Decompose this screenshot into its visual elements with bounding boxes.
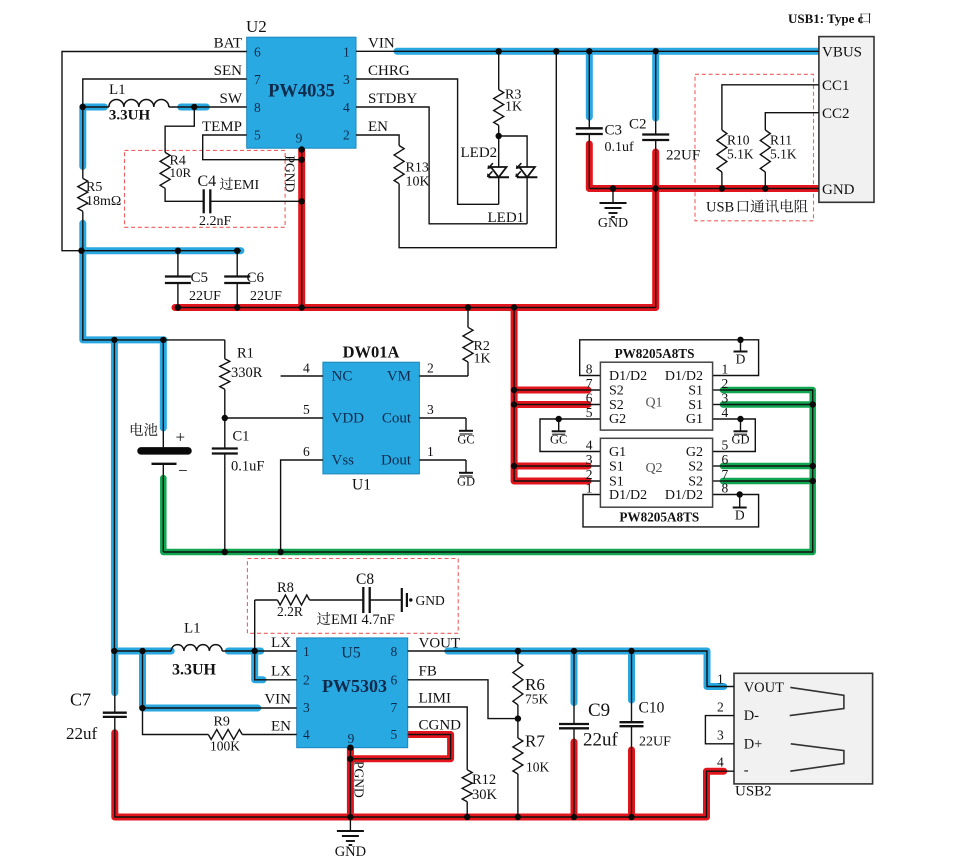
svg-text:2.2R: 2.2R — [277, 604, 303, 619]
svg-text:4: 4 — [586, 438, 593, 453]
svg-text:2.2nF: 2.2nF — [199, 214, 232, 229]
svg-text:CHRG: CHRG — [368, 63, 410, 79]
svg-text:Q1: Q1 — [645, 396, 662, 411]
svg-text:S1: S1 — [688, 398, 703, 413]
svg-text:2: 2 — [303, 673, 310, 688]
svg-text:3: 3 — [722, 391, 729, 406]
svg-text:5: 5 — [586, 405, 593, 420]
svg-text:G1: G1 — [609, 445, 626, 460]
svg-text:D+: D+ — [744, 737, 763, 753]
svg-text:R13: R13 — [406, 161, 429, 176]
svg-text:SEN: SEN — [214, 63, 243, 79]
svg-text:L1: L1 — [109, 82, 126, 98]
svg-text:U2: U2 — [246, 17, 267, 36]
svg-text:1K: 1K — [505, 100, 522, 115]
svg-text:EN: EN — [271, 719, 291, 735]
svg-text:R5: R5 — [86, 180, 102, 195]
svg-text:0.1uf: 0.1uf — [605, 140, 635, 155]
svg-text:LIMI: LIMI — [419, 691, 452, 707]
svg-text:D: D — [735, 508, 745, 523]
svg-text:FB: FB — [419, 664, 437, 680]
svg-text:C2: C2 — [629, 117, 647, 133]
svg-text:3.3UH: 3.3UH — [109, 108, 151, 124]
svg-text:+: + — [176, 428, 186, 447]
svg-text:0.1uF: 0.1uF — [231, 459, 264, 475]
svg-text:C3: C3 — [605, 123, 623, 139]
svg-text:S2: S2 — [609, 384, 624, 399]
svg-text:D1/D2: D1/D2 — [665, 369, 703, 384]
svg-text:22UF: 22UF — [250, 289, 282, 304]
svg-text:10K: 10K — [526, 760, 550, 775]
svg-text:U5: U5 — [341, 645, 361, 662]
svg-text:G2: G2 — [686, 445, 703, 460]
svg-text:1: 1 — [722, 362, 729, 377]
svg-text:22UF: 22UF — [666, 148, 700, 164]
svg-text:D1/D2: D1/D2 — [665, 488, 703, 503]
svg-text:R12: R12 — [472, 772, 496, 788]
svg-text:1K: 1K — [474, 352, 491, 367]
svg-text:NC: NC — [332, 369, 353, 385]
svg-text:1: 1 — [343, 45, 350, 60]
svg-text:GND: GND — [335, 844, 366, 860]
svg-text:G1: G1 — [686, 412, 703, 427]
svg-text:G2: G2 — [609, 412, 626, 427]
svg-text:7: 7 — [391, 700, 398, 715]
svg-text:C10: C10 — [639, 700, 665, 717]
svg-text:D-: D- — [744, 708, 759, 724]
svg-text:100K: 100K — [210, 739, 240, 754]
svg-text:R8: R8 — [277, 580, 294, 596]
svg-text:6: 6 — [586, 391, 593, 406]
svg-text:DW01A: DW01A — [343, 343, 400, 362]
svg-text:U1: U1 — [352, 477, 371, 494]
svg-text:C6: C6 — [247, 270, 265, 286]
svg-text:LX: LX — [271, 664, 291, 680]
svg-text:Dout: Dout — [381, 453, 412, 469]
svg-text:2: 2 — [427, 361, 434, 376]
svg-text:22uf: 22uf — [583, 730, 619, 751]
svg-text:R1: R1 — [237, 346, 254, 362]
svg-text:D: D — [736, 352, 746, 367]
svg-text:4: 4 — [303, 361, 310, 376]
svg-text:VIN: VIN — [264, 692, 291, 708]
svg-text:18mΩ: 18mΩ — [86, 194, 121, 209]
svg-text:8: 8 — [586, 362, 593, 377]
svg-text:LED2: LED2 — [461, 145, 498, 161]
svg-text:2: 2 — [717, 700, 724, 715]
svg-text:GND: GND — [598, 216, 628, 231]
svg-text:3: 3 — [303, 700, 310, 715]
svg-text:C7: C7 — [70, 690, 91, 710]
svg-text:-: - — [744, 763, 749, 779]
svg-text:22uf: 22uf — [66, 724, 98, 743]
svg-text:BAT: BAT — [214, 36, 242, 52]
svg-text:30K: 30K — [472, 787, 498, 803]
svg-text:1: 1 — [427, 444, 434, 459]
svg-text:PGND: PGND — [283, 156, 298, 193]
svg-text:GND: GND — [822, 182, 855, 198]
svg-text:4.7nF: 4.7nF — [362, 612, 395, 628]
svg-text:S2: S2 — [609, 398, 624, 413]
svg-text:3: 3 — [586, 452, 593, 467]
svg-text:Cout: Cout — [382, 411, 412, 427]
svg-text:PW8205A8TS: PW8205A8TS — [615, 346, 695, 361]
svg-text:PGND: PGND — [352, 761, 367, 798]
svg-text:C4: C4 — [198, 173, 217, 190]
svg-text:PW8205A8TS: PW8205A8TS — [619, 510, 699, 525]
svg-text:USB1: Type c: USB1: Type c — [788, 11, 864, 26]
svg-text:R9: R9 — [214, 715, 230, 730]
svg-text:5.1K: 5.1K — [727, 147, 754, 162]
svg-text:8: 8 — [254, 100, 261, 115]
svg-text:C8: C8 — [356, 571, 374, 588]
svg-text:2: 2 — [343, 128, 350, 143]
svg-text:10R: 10R — [170, 165, 192, 180]
svg-text:GND: GND — [416, 593, 445, 608]
svg-text:3: 3 — [717, 728, 724, 743]
svg-text:TEMP: TEMP — [202, 119, 242, 135]
svg-text:4: 4 — [303, 727, 310, 742]
svg-text:5.1K: 5.1K — [770, 147, 797, 162]
svg-text:6: 6 — [391, 673, 398, 688]
svg-text:10K: 10K — [406, 175, 430, 190]
svg-text:Vss: Vss — [332, 453, 355, 469]
svg-text:VM: VM — [387, 369, 411, 385]
svg-text:4: 4 — [343, 100, 350, 115]
svg-text:PW5303: PW5303 — [322, 676, 387, 696]
svg-text:S2: S2 — [688, 460, 703, 475]
svg-text:5: 5 — [303, 402, 310, 417]
svg-text:330R: 330R — [231, 365, 263, 381]
svg-text:9: 9 — [348, 731, 355, 746]
svg-text:R7: R7 — [525, 732, 545, 751]
svg-text:C5: C5 — [191, 270, 209, 286]
svg-text:2: 2 — [722, 376, 729, 391]
svg-text:7: 7 — [254, 72, 261, 87]
svg-text:Q2: Q2 — [645, 461, 662, 476]
svg-text:75K: 75K — [525, 692, 549, 707]
svg-text:6: 6 — [303, 444, 310, 459]
svg-text:R11: R11 — [770, 133, 792, 148]
svg-text:LX: LX — [271, 635, 291, 651]
svg-text:6: 6 — [254, 45, 261, 60]
svg-text:STDBY: STDBY — [368, 91, 417, 107]
svg-text:3: 3 — [427, 402, 434, 417]
svg-text:CC2: CC2 — [822, 106, 850, 122]
svg-text:1: 1 — [303, 644, 310, 659]
svg-text:PW4035: PW4035 — [268, 82, 335, 102]
svg-text:S1: S1 — [609, 460, 624, 475]
svg-text:VBUS: VBUS — [822, 45, 862, 61]
svg-text:CGND: CGND — [419, 718, 462, 734]
svg-text:CC1: CC1 — [822, 78, 850, 94]
svg-text:EN: EN — [368, 119, 388, 135]
svg-text:8: 8 — [722, 481, 729, 496]
svg-text:5: 5 — [254, 128, 261, 143]
svg-text:VDD: VDD — [332, 411, 365, 427]
svg-text:USB: USB — [706, 200, 734, 216]
svg-text:4: 4 — [722, 405, 729, 420]
svg-text:C9: C9 — [588, 700, 610, 721]
svg-text:5: 5 — [722, 438, 729, 453]
svg-text:22UF: 22UF — [189, 289, 221, 304]
svg-text:LED1: LED1 — [488, 210, 525, 226]
svg-text:USB2: USB2 — [735, 784, 772, 800]
svg-text:22UF: 22UF — [639, 735, 671, 750]
svg-text:3: 3 — [343, 72, 350, 87]
svg-text:D1/D2: D1/D2 — [609, 488, 647, 503]
svg-text:1: 1 — [717, 672, 724, 687]
svg-text:S1: S1 — [688, 384, 703, 399]
svg-text:1: 1 — [586, 481, 593, 496]
svg-text:−: − — [178, 461, 188, 480]
svg-text:5: 5 — [391, 727, 398, 742]
svg-text:EMI: EMI — [331, 612, 358, 628]
svg-text:D1/D2: D1/D2 — [609, 369, 647, 384]
svg-text:R10: R10 — [727, 133, 750, 148]
svg-text:VOUT: VOUT — [744, 680, 784, 696]
svg-text:7: 7 — [586, 376, 593, 391]
svg-text:6: 6 — [722, 452, 729, 467]
svg-text:EMI: EMI — [234, 178, 260, 193]
svg-text:8: 8 — [391, 644, 398, 659]
svg-text:L1: L1 — [184, 621, 201, 637]
svg-text:9: 9 — [296, 131, 303, 146]
svg-text:VOUT: VOUT — [419, 636, 461, 652]
svg-text:VIN: VIN — [368, 36, 395, 52]
svg-text:C1: C1 — [233, 429, 250, 445]
svg-text:4: 4 — [717, 755, 724, 770]
svg-text:SW: SW — [220, 91, 243, 107]
svg-text:3.3UH: 3.3UH — [172, 662, 217, 679]
